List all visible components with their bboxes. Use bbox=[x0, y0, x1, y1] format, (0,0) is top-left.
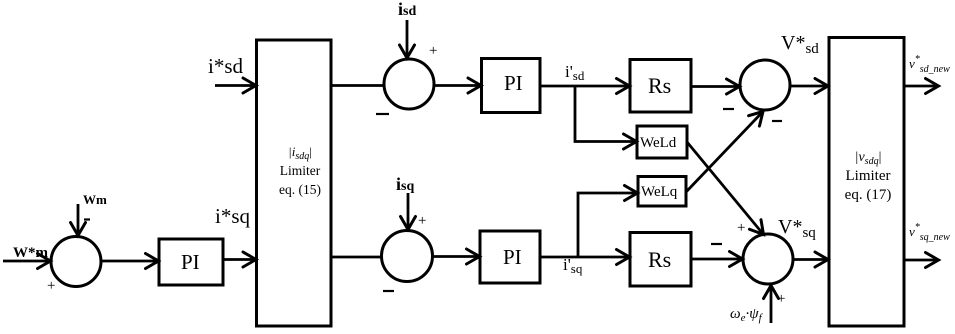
svg-text:PI: PI bbox=[504, 71, 523, 95]
svg-text:WeLq: WeLq bbox=[641, 184, 678, 200]
svg-text:Wm: Wm bbox=[83, 192, 107, 207]
svg-text:eq. (17): eq. (17) bbox=[845, 187, 892, 203]
svg-text:+: + bbox=[418, 213, 426, 229]
svg-text:+: + bbox=[777, 291, 785, 307]
svg-text:ωe·ψf: ωe·ψf bbox=[730, 306, 764, 324]
svg-text:+: + bbox=[737, 220, 745, 236]
svg-text:i*sd: i*sd bbox=[208, 54, 244, 78]
svg-text:Limiter: Limiter bbox=[280, 163, 321, 178]
svg-text:PI: PI bbox=[503, 245, 522, 269]
svg-text:+: + bbox=[47, 278, 55, 294]
svg-text:Limiter: Limiter bbox=[846, 168, 891, 184]
svg-text:Rs: Rs bbox=[648, 247, 671, 272]
svg-text:+: + bbox=[429, 43, 437, 59]
svg-text:i*sq: i*sq bbox=[215, 204, 251, 228]
svg-text:eq. (15): eq. (15) bbox=[279, 182, 321, 197]
svg-text:WeLd: WeLd bbox=[640, 135, 677, 151]
svg-text:PI: PI bbox=[181, 250, 200, 274]
svg-text:W*m: W*m bbox=[13, 245, 49, 261]
svg-text:Rs: Rs bbox=[648, 73, 671, 98]
